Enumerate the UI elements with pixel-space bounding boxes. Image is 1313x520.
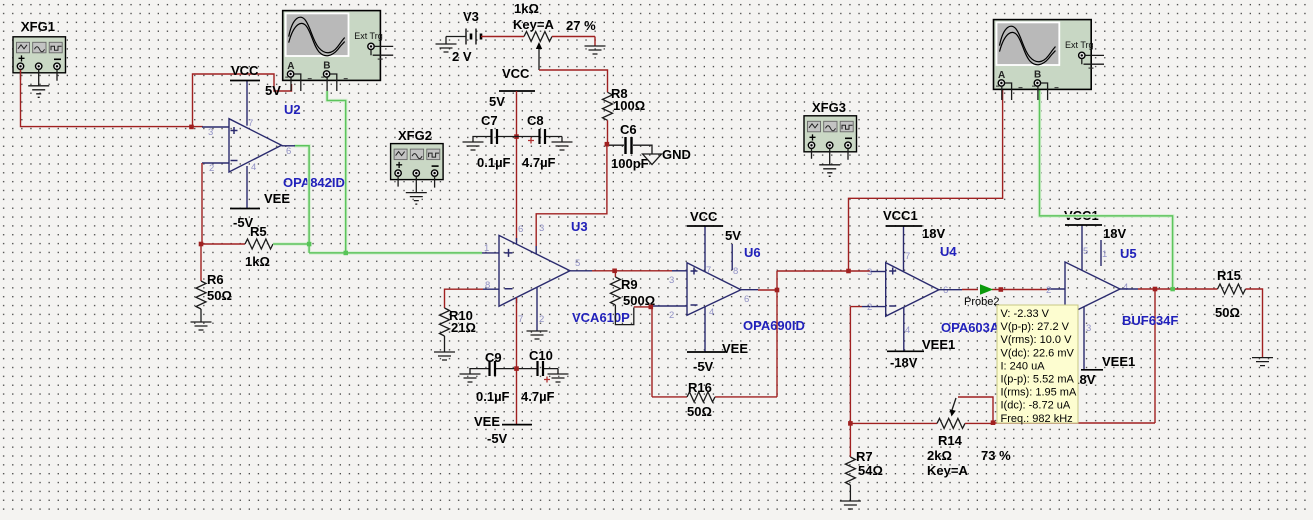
wire U6 output up/right to U4 + input [777, 270, 886, 273]
svg-text:73 %: 73 % [981, 448, 1011, 463]
svg-text:5V: 5V [489, 94, 505, 109]
svg-text:C8: C8 [527, 113, 544, 128]
svg-text:I(dc): -8.72 uA: I(dc): -8.72 uA [1001, 400, 1071, 412]
VCC rail symbol (U3 supply) [489, 66, 535, 109]
svg-text:6: 6 [943, 285, 948, 296]
function generator XFG3 [804, 100, 857, 176]
capacitor C8 (polarized) [517, 113, 573, 170]
svg-text:4.7µF: 4.7µF [521, 389, 555, 404]
svg-text:50Ω: 50Ω [1215, 305, 1240, 320]
svg-text:C6: C6 [620, 122, 637, 137]
node C7/C8 junction [514, 134, 519, 139]
node probe junction [999, 287, 1004, 292]
svg-text:Key=A: Key=A [513, 17, 554, 32]
svg-text:6: 6 [518, 224, 523, 235]
svg-text:3: 3 [539, 223, 544, 234]
svg-text:VCC: VCC [231, 63, 259, 78]
svg-text:-5V: -5V [693, 359, 714, 374]
VEE1 rail of U5 [1068, 354, 1135, 387]
svg-text:Probe2: Probe2 [964, 296, 999, 308]
svg-text:3: 3 [208, 127, 213, 138]
node R5/R6 junction [199, 242, 204, 247]
green junction node at R5/U2out [307, 242, 312, 247]
VEE rail of U2 [230, 191, 290, 230]
svg-text:0.1µF: 0.1µF [476, 389, 510, 404]
svg-text:I(p-p): 5.52 mA: I(p-p): 5.52 mA [1001, 374, 1075, 386]
green net: R5 right to U2 output and to U3 + input [273, 146, 482, 253]
svg-text:VEE1: VEE1 [922, 337, 955, 352]
svg-text:5: 5 [1083, 246, 1088, 257]
svg-text:VCC1: VCC1 [883, 208, 918, 223]
wire U4 + node up to scope XSC2 channel A [849, 90, 1003, 271]
svg-text:4: 4 [1123, 282, 1128, 293]
svg-text:U3: U3 [571, 219, 588, 234]
svg-text:-18V: -18V [890, 355, 918, 370]
svg-text:-5V: -5V [487, 431, 508, 446]
oscilloscope XSC1 [283, 11, 394, 91]
resistor R15 [1215, 268, 1273, 366]
svg-text:U2: U2 [284, 102, 301, 117]
wire U3 output to U6 + input [570, 270, 687, 272]
capacitor C10 (polarized) [517, 348, 569, 404]
svg-text:3: 3 [669, 275, 674, 286]
op-amp U2 OPA842ID [202, 81, 345, 209]
op-amp U4 OPA603 [862, 226, 1008, 351]
svg-text:54Ω: 54Ω [858, 463, 883, 478]
svg-text:OPA690ID: OPA690ID [743, 318, 805, 333]
ground GND symbol at C6 [643, 147, 691, 165]
VEE rail (U3 supply) [474, 414, 532, 446]
resistor R8 [603, 86, 646, 144]
svg-text:BUF634F: BUF634F [1122, 313, 1178, 328]
svg-text:R7: R7 [856, 449, 873, 464]
svg-text:7: 7 [706, 265, 711, 276]
node R8/C6/U3pin3 junction [605, 142, 610, 147]
svg-text:C9: C9 [485, 350, 502, 365]
svg-text:2: 2 [669, 310, 674, 321]
svg-text:8: 8 [485, 280, 490, 291]
svg-text:5V: 5V [265, 83, 281, 98]
svg-text:0.1µF: 0.1µF [477, 155, 511, 170]
svg-text:50Ω: 50Ω [687, 404, 712, 419]
function generator XFG2 [391, 128, 444, 204]
resistor R5 [245, 224, 273, 269]
ground at U3 pin2 [527, 331, 548, 339]
svg-text:2: 2 [867, 302, 872, 313]
battery V3 [436, 9, 482, 64]
svg-text:XFG3: XFG3 [812, 100, 846, 115]
svg-text:V(rms): 10.0 V: V(rms): 10.0 V [1001, 334, 1073, 346]
resistor R9 [610, 271, 655, 308]
svg-text:4.7µF: 4.7µF [522, 155, 556, 170]
svg-text:7: 7 [248, 118, 253, 129]
yellow probe readout box [997, 305, 1078, 425]
svg-text:VEE: VEE [474, 414, 500, 429]
svg-text:V(p-p): 27.2 V: V(p-p): 27.2 V [1001, 321, 1070, 333]
svg-text:U5: U5 [1120, 246, 1137, 261]
wire U5 output to R15 [1120, 288, 1218, 290]
svg-text:VCA610P: VCA610P [572, 310, 630, 325]
function generator XFG1 [13, 19, 66, 97]
wire U2 inverting node (red) down to R5/R6 junction [201, 163, 245, 244]
VCC rail of U6 [687, 209, 741, 243]
svg-text:7: 7 [905, 251, 910, 262]
svg-text:V: -2.33 V: V: -2.33 V [1001, 308, 1050, 320]
svg-text:50Ω: 50Ω [207, 288, 232, 303]
svg-text:2: 2 [539, 314, 544, 325]
svg-text:V3: V3 [463, 9, 479, 24]
wire U2 output to scope B (green) [327, 91, 346, 253]
node R9 / R16 / U6 inverting junction [649, 305, 654, 310]
svg-text:2: 2 [209, 163, 214, 174]
svg-text:18V: 18V [1103, 226, 1126, 241]
svg-text:2 V: 2 V [452, 49, 472, 64]
resistor R16 [687, 380, 715, 419]
oscilloscope XSC2 [994, 20, 1105, 100]
svg-text:R14: R14 [938, 433, 963, 448]
svg-text:4: 4 [251, 162, 256, 173]
svg-text:5V: 5V [725, 228, 741, 243]
node U6 output junction [775, 288, 780, 293]
svg-text:7: 7 [518, 314, 523, 325]
VEE rail of U6 [687, 341, 748, 374]
VCC1 rail of U4 [883, 208, 945, 241]
svg-text:8: 8 [733, 266, 738, 277]
node junction at U2 + input [189, 125, 194, 130]
svg-text:21Ω: 21Ω [451, 320, 476, 335]
svg-text:U6: U6 [744, 245, 761, 260]
svg-text:1kΩ: 1kΩ [514, 1, 539, 16]
wire U4 inverting input down to R7/R14 node [850, 307, 862, 424]
capacitor C9 [460, 350, 517, 404]
svg-text:VEE: VEE [264, 191, 290, 206]
op-amp U6 OPA690ID [669, 226, 805, 352]
node U3 output / R9 top [612, 269, 617, 274]
svg-text:100pF: 100pF [611, 156, 649, 171]
svg-text:R15: R15 [1217, 268, 1241, 283]
svg-text:6: 6 [744, 294, 749, 305]
svg-text:VEE: VEE [722, 341, 748, 356]
node C9/C10 junction [514, 366, 519, 371]
svg-text:I: 240 uA: I: 240 uA [1001, 360, 1046, 372]
wire U3 pin3 to R8/C6 node [536, 144, 607, 246]
op-amp U3 VCA610P [482, 219, 630, 331]
op-amp U5 BUF634F [1046, 225, 1178, 370]
svg-text:XFG1: XFG1 [21, 19, 55, 34]
svg-text:18V: 18V [922, 226, 945, 241]
svg-text:4: 4 [905, 325, 910, 336]
capacitor C6 [609, 122, 652, 171]
svg-text:2: 2 [1046, 285, 1051, 296]
green wire scope XSC2 channel B to U5 output [1040, 90, 1173, 287]
svg-text:VCC: VCC [502, 66, 530, 81]
wire XFG1 plus to U2 noninverting input [21, 70, 292, 127]
resistor R7 [840, 425, 883, 509]
potentiometer 1k Key=A [481, 1, 606, 70]
svg-text:1kΩ: 1kΩ [245, 254, 270, 269]
svg-text:5: 5 [575, 258, 580, 269]
svg-text:GND: GND [662, 147, 691, 162]
svg-text:VCC: VCC [690, 209, 718, 224]
wire pot wiper to R8 (VCC net) [539, 70, 608, 92]
svg-text:2kΩ: 2kΩ [927, 448, 952, 463]
svg-text:OPA842ID: OPA842ID [283, 175, 345, 190]
wire U3 inverting input to R10 [445, 289, 484, 308]
svg-text:R9: R9 [621, 277, 638, 292]
svg-text:XFG2: XFG2 [398, 128, 432, 143]
wire U6 output and feedback through R16 [652, 271, 777, 397]
node R14 wiper junction [991, 420, 996, 425]
svg-text:Freq.: 982 kHz: Freq.: 982 kHz [1001, 413, 1073, 425]
wire U3 pin7 down through C9/C10 to VEE [516, 298, 518, 425]
green junction node scopeB wire [344, 251, 349, 256]
svg-text:R6: R6 [207, 272, 224, 287]
resistor R6 [191, 246, 232, 330]
potentiometer R14 [850, 397, 1011, 478]
svg-text:V(dc): 22.6 mV: V(dc): 22.6 mV [1001, 347, 1075, 359]
node U5 output feedback tap [1153, 287, 1158, 292]
svg-text:U4: U4 [940, 244, 957, 259]
VCC rail of U2 [230, 63, 281, 98]
wire U4 output to U5 input [939, 288, 1065, 291]
svg-text:100Ω: 100Ω [613, 98, 645, 113]
svg-text:1: 1 [484, 243, 489, 254]
VCC1 rail of U5 [1064, 208, 1126, 241]
svg-text:VEE1: VEE1 [1102, 354, 1135, 369]
VEE1 rail of U4 [887, 337, 955, 370]
feedback wire U5 output to R14 node [995, 289, 1155, 423]
svg-text:6: 6 [286, 146, 291, 157]
svg-text:3: 3 [1086, 323, 1091, 334]
resistor R10 [434, 308, 476, 360]
svg-text:I(rms): 1.95 mA: I(rms): 1.95 mA [1001, 387, 1077, 399]
svg-text:R16: R16 [688, 380, 712, 395]
green junction node scope2 B wire [1170, 287, 1175, 292]
svg-text:C10: C10 [529, 348, 553, 363]
svg-text:Key=A: Key=A [927, 463, 968, 478]
probe Probe2 [964, 284, 999, 308]
wire VCC bar down to U3 pin6 [516, 91, 518, 241]
capacitor C7 [463, 113, 517, 170]
svg-text:27 %: 27 % [566, 18, 596, 33]
node R7/R14/U4- junction [848, 421, 853, 426]
svg-text:C7: C7 [481, 113, 498, 128]
svg-text:3: 3 [867, 267, 872, 278]
svg-text:R5: R5 [250, 224, 267, 239]
node at U4 input branch [846, 269, 851, 274]
svg-text:1: 1 [1102, 249, 1107, 260]
svg-text:4: 4 [709, 307, 714, 318]
wire R9 bottom jog to U6 inverting node [615, 305, 687, 325]
